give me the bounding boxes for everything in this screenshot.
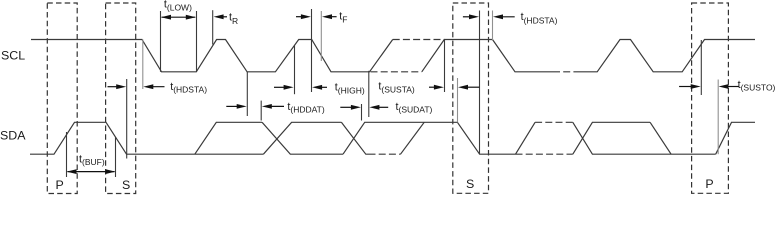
svg-text:t(BUF): t(BUF) xyxy=(79,154,105,168)
repeated-start box S (middle) xyxy=(453,3,489,193)
wire SDA crossover X2 falling xyxy=(341,122,368,154)
wire SDA first data rise xyxy=(195,122,262,154)
svg-text:t(HDSTA): t(HDSTA) xyxy=(521,11,558,25)
marker t(BUF) left xyxy=(66,132,68,177)
marker t(BUF) right xyxy=(115,137,117,177)
svg-text:tF: tF xyxy=(339,11,347,25)
start-condition box S (left) xyxy=(106,3,136,194)
marker t(SUSTO) right (SDA rise start) xyxy=(717,80,719,155)
wire SDA crossover X1 falling xyxy=(262,122,343,154)
dimension t(HIGH) right-pointing arrow xyxy=(274,86,287,88)
svg-text:t(SUDAT): t(SUDAT) xyxy=(396,101,433,115)
dimension t(HDSTA)1 left-pointing arrow xyxy=(148,86,165,88)
dimension t(SUDAT) right-pointing arrow xyxy=(340,106,354,108)
svg-text:SDA: SDA xyxy=(0,129,26,143)
wire SDA rise after S box xyxy=(516,122,536,154)
dimension t(SUSTA) left-pointing arrow xyxy=(464,86,479,88)
svg-text:t(SUSTA): t(SUSTA) xyxy=(378,81,415,95)
marker t(SUDAT) left xyxy=(361,104,363,121)
marker t(HDSTA) first left (SDA fall) xyxy=(126,79,128,159)
wire SDA last data fall xyxy=(650,122,671,154)
wire SDA low dashed segment xyxy=(516,153,573,155)
dimension tR left-pointing arrow xyxy=(218,16,227,18)
dimension t(BUF) double arrow xyxy=(68,171,115,173)
svg-text:t(HIGH): t(HIGH) xyxy=(335,82,365,96)
wire SDA crossover X1 rising xyxy=(263,122,341,154)
marker t(HDDAT) right xyxy=(260,101,262,121)
wire SDA crossover X3 rising xyxy=(573,122,650,154)
wire SDA crossover X2 rising xyxy=(343,122,457,154)
svg-text:t(LOW): t(LOW) xyxy=(164,0,192,12)
svg-text:P: P xyxy=(56,178,64,192)
marker t(LOW) left xyxy=(160,11,162,72)
wire SDA low dashed segment before rise xyxy=(369,153,401,155)
dimension t(HIGH) left-pointing arrow xyxy=(317,86,327,88)
svg-text:S: S xyxy=(466,177,474,191)
dimension t(LOW) double arrow xyxy=(162,16,196,18)
wire SDA final rise in P box xyxy=(716,122,755,154)
marker t(HDDAT) left xyxy=(246,72,248,116)
marker t(HDSTA) second right (SCL fall start) xyxy=(492,11,494,42)
svg-text:SCL: SCL xyxy=(1,49,25,63)
start-condition box P (left) xyxy=(47,3,77,194)
marker t(HIGH) left xyxy=(294,46,296,95)
wire SCL right solid portion xyxy=(575,40,755,72)
dimension t(HDSTA)2 right-pointing arrow xyxy=(463,16,473,18)
wire SDA rise joining high before S box xyxy=(401,122,425,154)
dimension t(HDDAT) left-pointing arrow xyxy=(267,105,284,107)
dimension t(HDSTA)1 right-pointing arrow xyxy=(108,86,121,88)
marker tR end xyxy=(212,10,214,44)
dimension tF left-pointing arrow xyxy=(328,16,337,18)
svg-text:t(SUSTO): t(SUSTO) xyxy=(738,79,776,93)
wire SDA fall in middle S box xyxy=(457,122,515,154)
dimension t(SUSTA) right-pointing arrow xyxy=(429,86,437,88)
marker t(LOW) right xyxy=(196,11,198,72)
marker t(SUDAT) right xyxy=(368,71,370,117)
wire SDA crossover X3 falling xyxy=(573,122,716,154)
wire SCL high dashed segment xyxy=(393,39,445,41)
dimension t(SUDAT) left-pointing arrow xyxy=(375,106,388,108)
marker t(SUSTA) left xyxy=(444,40,446,92)
svg-text:S: S xyxy=(122,178,130,192)
wire SDA left solid portion with start/stop edges xyxy=(30,122,263,154)
wire SDA high dashed segment xyxy=(535,121,573,123)
svg-text:t(HDDAT): t(HDDAT) xyxy=(287,101,324,115)
dimension t(HDDAT) right-pointing arrow xyxy=(226,105,240,107)
wire SCL waveform solid left portion xyxy=(31,40,393,72)
dimension t(SUSTO) left-pointing arrow xyxy=(724,86,739,88)
marker t(SUSTA) right (SDA fall start) xyxy=(457,78,459,122)
marker tF right xyxy=(320,11,322,61)
svg-text:tR: tR xyxy=(229,11,238,26)
svg-text:t(HDSTA): t(HDSTA) xyxy=(170,81,207,95)
marker t(SUSTO) left (SCL rise end) xyxy=(700,40,702,95)
dimension t(SUSTO) right-pointing arrow xyxy=(679,86,694,88)
dimension t(HDSTA)2 left-pointing arrow xyxy=(498,16,515,18)
marker tF left / t(HIGH) right xyxy=(311,9,313,92)
wire SCL rise from dashed low to S box xyxy=(422,40,553,72)
marker t(HDSTA) first right (SCL fall start) xyxy=(142,40,144,90)
wire SCL low dashed alternative segment xyxy=(371,71,422,73)
marker t(HDSTA) second left (SDA fall end) xyxy=(479,11,481,155)
stop box P (right) xyxy=(692,3,729,193)
dimension tF right-pointing arrow xyxy=(296,16,304,18)
wire SCL low dashed middle segment xyxy=(553,71,575,73)
svg-text:P: P xyxy=(705,177,713,191)
